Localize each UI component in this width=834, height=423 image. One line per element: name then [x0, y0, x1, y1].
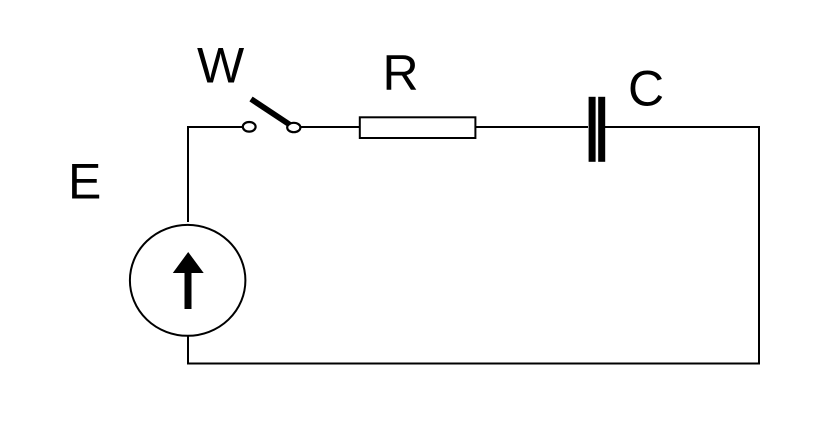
svg-text:C: C — [628, 61, 664, 117]
wire: resistor to capacitor — [476, 126, 588, 128]
svg-text:W: W — [197, 38, 245, 94]
wire: left vertical from top wire down to source top — [187, 127, 189, 222]
wire: top-left horizontal to switch left contact — [187, 126, 243, 128]
wire: bottom horizontal — [187, 363, 760, 365]
capacitor C left plate — [589, 97, 596, 162]
wire: switch right contact to resistor — [301, 126, 360, 128]
capacitor C right plate — [598, 97, 605, 162]
wire: capacitor to top-right corner — [605, 126, 760, 128]
switch W blade — [251, 99, 291, 126]
wire: right vertical — [758, 126, 760, 364]
svg-text:E: E — [68, 154, 101, 210]
source E arrow head — [173, 252, 204, 273]
switch W right contact — [287, 123, 300, 132]
source E circle — [130, 225, 246, 336]
switch W left contact — [243, 122, 256, 132]
resistor R body — [360, 117, 476, 138]
svg-text:R: R — [383, 45, 419, 101]
wire: bottom-left vertical from source bottom — [187, 335, 189, 365]
source E arrow shaft — [185, 268, 192, 309]
